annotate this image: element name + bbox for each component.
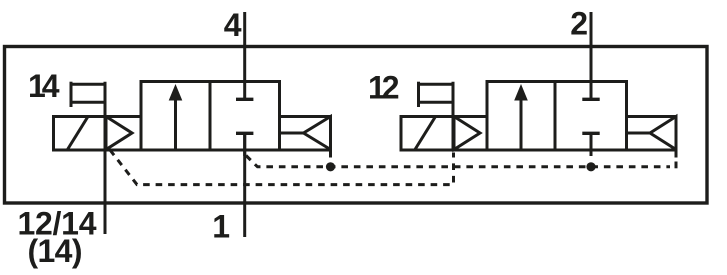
junction dot J1 — [326, 162, 335, 171]
svg-text:(14): (14) — [28, 233, 83, 269]
pilot supply dashed line 12/14 to Y2 — [110, 150, 454, 185]
pilot 12 bracket lower rail — [419, 101, 454, 104]
pilot 14 bracket upper rail — [71, 83, 105, 86]
pilot return dashed line from port 1 — [246, 156, 670, 167]
valve V1 pilot box top — [105, 115, 141, 118]
svg-text:14: 14 — [28, 68, 60, 104]
valve V2 flow arrow head — [514, 84, 528, 101]
valve V2 return pilot stub — [675, 150, 678, 158]
valve V1 return pilot triangle — [304, 117, 331, 150]
valve V2 return pilot box — [627, 117, 677, 151]
valve V2 pilot triangle — [454, 117, 480, 150]
valve V2 blocked port 2 T-bar — [582, 98, 599, 101]
pilot return dashed line end tick — [675, 162, 678, 169]
valve V1 return pilot box — [280, 117, 331, 151]
valve V1 pilot box bottom — [54, 149, 142, 152]
port 12/14 line — [104, 82, 107, 234]
svg-text:1: 1 — [212, 208, 230, 244]
svg-text:2: 2 — [570, 5, 588, 41]
valve V1 body — [141, 82, 280, 151]
valve V1 return pilot stub — [329, 150, 332, 158]
valve V2 pilot box bottom — [453, 149, 487, 152]
valve V2 partition — [554, 82, 557, 151]
pilot 12 bracket left bar — [417, 82, 420, 107]
port 2 line — [590, 12, 593, 99]
valve V2 flow arrow stem — [520, 100, 523, 150]
valve V2 return pilot midline — [627, 132, 651, 135]
valve V1 blocked port 4 T-bar — [236, 98, 253, 101]
valve V1 pilot triangle — [106, 117, 132, 150]
svg-text:12: 12 — [368, 69, 400, 105]
pilot 12 bracket upper rail — [419, 83, 454, 86]
pilot 12 spine — [452, 82, 455, 150]
valve V1 flow arrow stem — [174, 100, 177, 150]
solenoid Y2 diagonal — [415, 117, 436, 150]
valve V2 return pilot triangle — [650, 117, 676, 150]
valve V1 blocked port 1 T-bar — [236, 132, 253, 135]
port 1 line — [243, 133, 246, 237]
valve V1 flow arrow head — [169, 84, 183, 101]
valve V2 body — [487, 82, 627, 151]
port 4 line — [243, 12, 246, 99]
valve V2 blocked port 1 T-bar — [582, 132, 599, 135]
solenoid Y1 diagonal — [68, 117, 89, 150]
valve V2 pilot box top — [453, 115, 487, 118]
valve V2 blocked port 1 stem — [590, 133, 593, 156]
svg-text:4: 4 — [224, 7, 242, 43]
solenoid Y1 box — [54, 117, 106, 151]
pilot 14 bracket lower rail — [71, 101, 105, 104]
valve V1 blocked port 1 stem — [243, 133, 246, 156]
pilot 14 bracket left bar — [70, 82, 73, 107]
valve V1 return pilot midline — [280, 132, 304, 135]
enclosure border frame — [5, 47, 708, 204]
solenoid Y2 box — [401, 117, 453, 151]
junction dot J2 — [586, 162, 595, 171]
valve V1 partition — [209, 82, 212, 151]
